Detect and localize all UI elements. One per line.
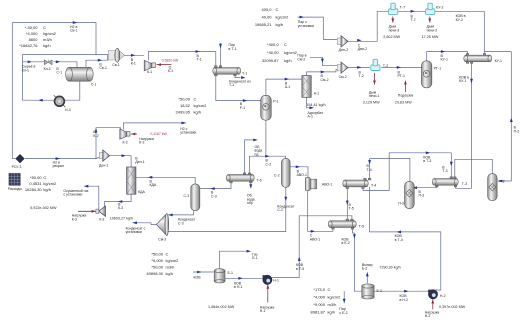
svg-text:C: C: [328, 287, 331, 292]
svg-text:C: C: [43, 25, 46, 30]
wire KU-1 outlet right to P-2 riser: [498, 52, 512, 181]
svg-text:*173,0: *173,0: [313, 287, 325, 292]
svg-text:Ден-1: Ден-1: [99, 164, 108, 168]
svg-text:АВО-1: АВО-1: [297, 173, 307, 177]
svg-text:с установки: с установки: [63, 193, 82, 197]
svg-text:С-2: С-2: [266, 162, 272, 166]
svg-text:kg/h: kg/h: [284, 58, 292, 63]
node arrow into C-1: [56, 60, 60, 63]
svg-text:См-2: См-2: [297, 57, 305, 61]
svg-text:К-2: К-2: [93, 134, 98, 138]
svg-text:1,084e-002 MW: 1,084e-002 MW: [208, 305, 235, 309]
wire N-1 discharge to riser: [272, 276, 299, 277]
svg-text:kg/h: kg/h: [166, 271, 174, 276]
svg-text:П-3: П-3: [419, 194, 425, 198]
wire Dvi-1 to KDA column top: [109, 156, 131, 167]
mixer Sm-2: [337, 62, 348, 79]
svg-text:7290,30 kg/h: 7290,30 kg/h: [379, 266, 400, 270]
svg-text:РТ-1: РТ-1: [398, 74, 405, 78]
svg-text:КУ-2: КУ-2: [436, 6, 443, 10]
svg-text:К-1: К-1: [168, 69, 173, 73]
drum E-1: [214, 269, 233, 283]
svg-text:Ден-1: Ден-1: [135, 160, 144, 164]
wire header down into KU-1: [483, 11, 485, 53]
stream Kondensat iz T-1: [235, 76, 241, 78]
svg-text:Ден-2: Ден-2: [339, 48, 348, 52]
compressor K-3: [96, 206, 106, 222]
svg-text:См-2: См-2: [339, 75, 347, 79]
svg-text:m3/h: m3/h: [166, 264, 175, 269]
svg-text:40,00: 40,00: [261, 15, 272, 20]
svg-text:*50,00: *50,00: [151, 264, 163, 269]
svg-text:Н-2: Н-2: [425, 314, 431, 318]
wire Sm-3 product Kondensat s ustanovki: [132, 223, 156, 225]
svg-text:*50,00: *50,00: [178, 97, 190, 102]
stream feed arrow into Kl-1: [28, 60, 32, 63]
svg-text:kg/cm2: kg/cm2: [284, 50, 298, 55]
svg-text:К-3: К-3: [99, 218, 104, 222]
svg-text:Расходы: Расходы: [8, 187, 23, 191]
wire KOV v T-3 drop into T-3: [450, 153, 452, 177]
heat exchanger T-3: [432, 177, 467, 187]
pump N-4 (C-1 bottoms pump): [54, 95, 71, 112]
wire T-3 to P-3: [414, 186, 436, 189]
wire Sm-2 to T-2: [348, 66, 370, 68]
svg-text:kg/cm2: kg/cm2: [276, 15, 290, 20]
pump N-1: [263, 275, 279, 284]
heat exchanger T-5: [328, 219, 364, 229]
svg-text:в Т-4: в Т-4: [395, 238, 403, 242]
separator C-3: [184, 184, 200, 211]
node arrow C-1 gas: [98, 59, 102, 62]
wire T-4 KOV out up-over to T-3: [363, 153, 451, 191]
stream Adsorbat A-1: [307, 97, 310, 108]
wire T-4 to T-5: [346, 189, 348, 220]
svg-text:Т-3: Т-3: [462, 182, 467, 186]
svg-text:18,52: 18,52: [180, 103, 191, 108]
svg-text:kg/h: kg/h: [328, 309, 336, 314]
svg-text:Е-2: Е-2: [377, 289, 383, 293]
wire R-1 overhead to A-1: [266, 79, 302, 95]
svg-text:С-3: С-3: [184, 194, 190, 198]
svg-text:0,4531: 0,4531: [29, 181, 42, 186]
node H2 arrow: [73, 21, 77, 24]
svg-text:9,397e-002 MW: 9,397e-002 MW: [439, 305, 466, 309]
svg-text:К-2: К-2: [123, 141, 128, 145]
svg-text:*50,00: *50,00: [30, 175, 42, 180]
turbine Dvi-1: [99, 150, 110, 168]
wire T-2 to RT-1: [381, 66, 421, 68]
svg-text:Кл-1: Кл-1: [44, 67, 51, 71]
air cooler AVO-1: [305, 177, 332, 190]
svg-text:К-1: К-1: [147, 70, 152, 74]
table steam to Sm-2 properties: [262, 42, 298, 63]
stream label KOV v KU-1 and riser to T-3: [456, 63, 472, 188]
svg-text:49898,30: 49898,30: [146, 271, 163, 276]
svg-text:kg/cm2: kg/cm2: [43, 31, 57, 36]
svg-text:*50,00: *50,00: [151, 251, 163, 256]
svg-text:С-3: С-3: [178, 221, 184, 225]
svg-text:К-2: К-2: [139, 141, 144, 145]
svg-text:А-1: А-1: [308, 115, 314, 119]
wire RT-1 overhead to KU-1: [427, 52, 468, 61]
recycle block RCY-1 (dark diamond): [12, 154, 25, 169]
svg-text:С-1: С-1: [56, 71, 62, 75]
svg-text:КУ-1: КУ-1: [441, 58, 448, 62]
svg-text:32099,87: 32099,87: [262, 58, 279, 63]
svg-text:Св-1: Св-1: [99, 66, 107, 70]
drier column KDA (hatched): [127, 167, 146, 194]
svg-text:Кл-1: Кл-1: [22, 69, 29, 73]
wire RCY-1 to Dvi-1: [25, 157, 100, 159]
wire N-1 KOV into T-5: [299, 216, 352, 276]
wire C-2 overhead to AVO-1: [290, 167, 308, 178]
svg-text:К-3: К-3: [118, 206, 123, 210]
svg-text:Т-1: Т-1: [229, 83, 234, 87]
svg-text:А-1: А-1: [314, 91, 320, 95]
valve Kl-1: [44, 60, 53, 71]
energy stream Dym pechi-1 (red): [374, 73, 376, 85]
heat exchanger T-4: [343, 178, 377, 188]
svg-text:Т-2: Т-2: [359, 74, 364, 78]
svg-text:5,922e-002 MW: 5,922e-002 MW: [30, 206, 57, 210]
table dry gas properties: [25, 175, 57, 192]
svg-text:m3/h: m3/h: [43, 37, 52, 42]
energy stream Nagruzka N-1 (red): [267, 285, 269, 303]
svg-text:Р-1: Р-1: [273, 100, 279, 104]
energy stream Dym pechi-3 (red): [392, 17, 394, 23]
svg-text:0,1167 kW: 0,1167 kW: [150, 132, 167, 136]
svg-text:С-2: С-2: [277, 208, 283, 212]
wire N-2 discharge KOV v T-4: [370, 187, 441, 290]
reactor RT-1 (vessel with sphere): [422, 61, 442, 88]
wire C-1 overhead to Sv-1: [86, 55, 108, 68]
svg-text:Св-1: Св-1: [112, 63, 120, 67]
furnace T-7 (cyan): [389, 3, 406, 14]
svg-text:*-30,00: *-30,00: [25, 25, 39, 30]
svg-text:в Н-2: в Н-2: [400, 298, 409, 302]
svg-text:П-3: П-3: [398, 202, 404, 206]
svg-text:Е-2: Е-2: [362, 267, 368, 271]
stream OB voda return (top stub): [245, 140, 254, 173]
node arrow on pump line: [38, 99, 42, 102]
energy stream Q K-1 (red): [157, 64, 172, 66]
svg-text:19685,21: 19685,21: [255, 22, 272, 27]
wire K-1 discharge to T-1: [148, 52, 215, 66]
wire A-1 overhead to Sm-2: [307, 70, 339, 76]
svg-text:kg/cm2: kg/cm2: [328, 294, 342, 299]
svg-text:Р-2: Р-2: [499, 179, 505, 183]
energy stream Nagruzka N-2 (red): [432, 299, 434, 309]
wire C-1 bottoms to pump: [22, 81, 79, 100]
energy stream Dym pechi-2 (red): [429, 17, 431, 23]
compressor K-2: [120, 129, 130, 145]
heat exchanger T-1: [213, 66, 248, 76]
furnace KU-2 (cyan): [426, 3, 444, 14]
svg-text:C: C: [43, 175, 46, 180]
svg-text:8981,87: 8981,87: [311, 309, 326, 314]
svg-text:печи-2: печи-2: [427, 29, 438, 33]
wire KDA bottoms to K-3: [105, 194, 132, 208]
svg-text:Дви-2: Дви-2: [358, 47, 367, 51]
table KOV feed properties: [146, 251, 179, 275]
svg-text:КДА: КДА: [138, 190, 145, 194]
svg-text:*9,000: *9,000: [313, 302, 325, 307]
wire into T-4 (process from P-3 header): [369, 159, 371, 179]
svg-text:*400,0: *400,0: [267, 42, 279, 47]
svg-text:Н-1: Н-1: [273, 279, 279, 283]
svg-text:Е-1: Е-1: [228, 271, 234, 275]
stream Par v T-1 (steam into T-1): [220, 43, 222, 66]
svg-text:Н-2: Н-2: [440, 294, 446, 298]
wire E-2 to N-2: [375, 290, 429, 292]
svg-text:C: C: [284, 42, 287, 47]
svg-text:*4,000: *4,000: [313, 294, 325, 299]
svg-text:установки: установки: [298, 24, 314, 28]
adsorber A-1 (hatched column): [302, 76, 319, 98]
table stream H2 recycle properties: [19, 25, 56, 48]
svg-text:29,83 MW: 29,83 MW: [395, 101, 412, 105]
svg-text:3,129 MW: 3,129 MW: [363, 101, 380, 105]
svg-text:Е-1: Е-1: [252, 256, 257, 260]
svg-text:С-1: С-1: [91, 82, 97, 86]
table stream K-1 discharge properties: [176, 97, 208, 115]
svg-text:РТ-1: РТ-1: [434, 67, 441, 71]
wire K-2 discharge H2 s ustanovki: [124, 123, 187, 130]
turbine Dvi-2: [337, 36, 348, 52]
svg-text:КУ-1: КУ-1: [495, 59, 502, 63]
energy stream Nagruzka K-3 (red): [78, 210, 96, 212]
svg-text:с Е-2: с Е-2: [339, 311, 347, 315]
svg-text:17,25 MW: 17,25 MW: [422, 35, 439, 39]
stream Kondensat C-2: [168, 188, 286, 232]
stream Gaz E-1 (flash gas): [220, 251, 247, 268]
heat exchanger T-6: [226, 173, 261, 183]
svg-text:Т-5: Т-5: [359, 224, 364, 228]
svg-text:Подогрев: Подогрев: [398, 93, 414, 97]
wire T-3 steam out to R-2: [455, 159, 493, 177]
svg-text:Т-1: Т-1: [242, 71, 247, 75]
svg-text:10603,27 kg/h: 10603,27 kg/h: [110, 217, 133, 221]
svg-text:Н-1: Н-1: [260, 309, 266, 313]
wire H2 to Sv-1 top run: [12, 23, 96, 55]
svg-text:Т-7: Т-7: [400, 6, 405, 10]
svg-text:Т-4: Т-4: [367, 168, 372, 172]
svg-text:в Н-1: в Н-1: [234, 285, 243, 289]
wire C-3 overhead reflux into KDA: [136, 177, 195, 184]
wire T-1 shell out to R-1: [216, 76, 261, 101]
svg-text:Н-4: Н-4: [65, 108, 71, 112]
wire R-1 bottoms drop: [265, 120, 267, 156]
compressor K-1: [144, 60, 155, 74]
svg-text:kg/h: kg/h: [276, 22, 284, 27]
svg-text:Т-4: Т-4: [371, 184, 376, 188]
svg-text:в Т-5: в Т-5: [296, 267, 304, 271]
svg-text:*40,00: *40,00: [267, 50, 279, 55]
svg-text:400,0: 400,0: [261, 7, 272, 12]
stream Par s E-2 (bottom stub): [343, 291, 345, 303]
wire AVO-1 to T-5 hot side: [308, 191, 333, 232]
svg-text:С-2: С-2: [274, 173, 280, 177]
svg-text:К-3: К-3: [72, 217, 77, 221]
svg-text:Т-3: Т-3: [442, 169, 447, 173]
wire E-1 to N-1: [225, 277, 263, 279]
wire C-3 bottoms to Sm-3: [168, 211, 194, 215]
svg-text:в Т-3: в Т-3: [423, 159, 431, 163]
wire T-6 outlet into C-3: [200, 183, 231, 189]
svg-text:См-2: См-2: [321, 78, 329, 82]
table E-2 steam properties: [311, 287, 342, 315]
svg-text:Т-6: Т-6: [256, 178, 261, 182]
svg-text:в Е-2: в Е-2: [342, 241, 350, 245]
svg-text:К-1: К-1: [131, 62, 136, 66]
wire header to P-3 top: [370, 159, 410, 182]
wire recycle line into RCY-1: [12, 158, 15, 160]
stream Vypar E-2: [366, 276, 368, 284]
svg-text:kg/cm2: kg/cm2: [43, 181, 57, 186]
svg-text:Т-5: Т-5: [349, 207, 354, 211]
compressor Sv-1 (blower): [108, 48, 124, 67]
energy stream Podogrev (red) into RT-1: [404, 81, 406, 92]
svg-text:2499,95: 2499,95: [176, 110, 191, 115]
svg-text:установки: установки: [126, 230, 142, 234]
svg-text:АВО-1: АВО-1: [310, 237, 320, 241]
svg-text:КДА: КДА: [150, 183, 157, 187]
vessel P-3 (with diamond internal): [398, 181, 414, 208]
svg-text:kg/cm2: kg/cm2: [166, 258, 180, 263]
wire Sv-1 to K-1: [124, 54, 144, 56]
stream Par v Sm-2: [310, 57, 338, 65]
svg-text:Св-1: Св-1: [70, 29, 78, 33]
furnace T-2 (cyan): [371, 59, 388, 70]
wire H2 recycle riser (left edge vertical): [11, 23, 13, 159]
wire Dvi-2 exhaust up to T-7 header: [348, 11, 484, 41]
svg-text:А-1: А-1: [285, 85, 291, 89]
svg-text:kg/h: kg/h: [43, 187, 51, 192]
svg-text:установки: установки: [180, 131, 196, 135]
wire K-3 discharge Osushennyj gaz: [84, 186, 99, 210]
svg-text:См-3: См-3: [158, 238, 166, 242]
wire pump discharge riser to Sv-1 suction header: [22, 55, 111, 101]
svg-text:kg/h: kg/h: [43, 43, 51, 48]
svg-text:C: C: [276, 7, 279, 12]
node arrow to T-7: [411, 10, 415, 13]
svg-text:*16842,76: *16842,76: [19, 43, 38, 48]
vessel C-1 horizontal drum: [66, 67, 97, 86]
svg-text:Т-1: Т-1: [197, 58, 202, 62]
svg-text:КУ-2: КУ-2: [456, 18, 463, 22]
svg-text:0,5820 kW: 0,5820 kW: [162, 58, 179, 62]
svg-text:C: C: [194, 97, 197, 102]
stream Par s ustanovki: [298, 17, 339, 39]
svg-text:КУ-1: КУ-1: [459, 79, 466, 83]
wire branch up to K-2: [96, 128, 121, 159]
svg-text:m3/h: m3/h: [328, 302, 337, 307]
svg-text:*5,000: *5,000: [151, 258, 163, 263]
svg-text:КОВ: КОВ: [194, 276, 202, 280]
svg-text:C: C: [166, 251, 169, 256]
wire T-5 KOV out to E-2: [353, 229, 362, 291]
wire T-6 to C-2 (with R-1 bottoms junction): [250, 156, 286, 173]
drum E-2: [362, 284, 382, 299]
svg-text:АВО-1: АВО-1: [322, 182, 332, 186]
svg-text:Т-7: Т-7: [411, 18, 416, 22]
mixer Sm-3: [156, 214, 168, 242]
svg-text:*4,000: *4,000: [26, 31, 38, 36]
svg-text:Р-1: Р-1: [240, 106, 246, 110]
separator C-2: [274, 158, 290, 187]
svg-text:16284,30: 16284,30: [25, 187, 42, 192]
svg-text:2,602 MW: 2,602 MW: [383, 35, 400, 39]
svg-text:С-3: С-3: [211, 194, 217, 198]
wire Kl-1 to C-1: [54, 62, 77, 68]
spreadsheet icon Raskhody: [8, 174, 23, 191]
svg-text:печи-3: печи-3: [389, 29, 400, 33]
svg-text:рецикл: рецикл: [53, 164, 64, 168]
stream OB voda obr (bottom stub): [250, 183, 252, 188]
energy stream Q K-2 (red): [131, 133, 137, 135]
waste heat boiler KU-1: [464, 54, 502, 64]
svg-text:пд: пд: [255, 152, 259, 156]
svg-text:РСУ-1: РСУ-1: [12, 165, 22, 169]
svg-text:154,41 kg/h: 154,41 kg/h: [306, 103, 325, 107]
table steam import properties: [255, 7, 289, 27]
vessel R-2 (steam drum with diamond): [488, 174, 505, 201]
vessel R-1 (with internal sphere): [261, 95, 279, 120]
svg-text:П-2: П-2: [514, 129, 520, 133]
svg-text:kg/h: kg/h: [194, 110, 202, 115]
svg-text:8600: 8600: [29, 37, 39, 42]
pump N-2: [428, 290, 445, 299]
svg-text:в Т-1: в Т-1: [229, 47, 237, 51]
svg-text:kg/cm2: kg/cm2: [194, 103, 208, 108]
svg-text:обр: обр: [247, 201, 253, 205]
stream KOV feed into E-1: [193, 271, 213, 273]
svg-text:печи-1: печи-1: [369, 94, 380, 98]
